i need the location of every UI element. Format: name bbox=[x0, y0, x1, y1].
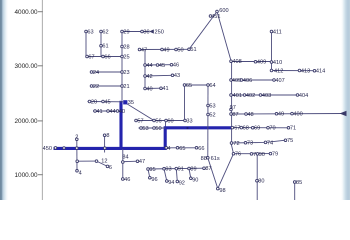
node 89 bbox=[188, 166, 197, 172]
svg-text:21: 21 bbox=[123, 84, 129, 90]
svg-text:47: 47 bbox=[141, 47, 147, 53]
node 97 bbox=[230, 105, 236, 111]
pipe 20-35 bbox=[88, 101, 124, 103]
svg-text:44: 44 bbox=[109, 109, 115, 115]
svg-text:64: 64 bbox=[209, 83, 215, 89]
node 63 bbox=[85, 29, 94, 35]
svg-text:62: 62 bbox=[102, 29, 108, 35]
pipe 44-46 bbox=[145, 64, 172, 66]
node 28 bbox=[121, 44, 130, 50]
node 414 bbox=[313, 69, 325, 75]
svg-text:414: 414 bbox=[316, 69, 325, 75]
svg-text:41: 41 bbox=[96, 109, 102, 115]
node 410 bbox=[270, 60, 282, 66]
svg-text:406: 406 bbox=[243, 78, 252, 84]
svg-text:411: 411 bbox=[273, 29, 282, 35]
svg-text:40: 40 bbox=[146, 86, 152, 92]
node 95 bbox=[147, 167, 156, 173]
pipe 2-4 bbox=[76, 139, 78, 171]
svg-text:93: 93 bbox=[165, 167, 171, 173]
arrow outfall right edge bbox=[340, 111, 347, 117]
wire selected-path branch 35-34 (thick blue) bbox=[119, 101, 122, 149]
node 23 bbox=[121, 70, 130, 76]
node 42 bbox=[144, 74, 153, 80]
svg-text:57: 57 bbox=[137, 118, 143, 124]
window border left strip bbox=[0, 0, 8, 200]
svg-text:47: 47 bbox=[139, 159, 145, 165]
svg-text:41: 41 bbox=[162, 86, 168, 92]
node 50b bbox=[175, 47, 184, 53]
svg-text:84: 84 bbox=[122, 155, 128, 161]
node 30 bbox=[141, 29, 150, 35]
pipe 89-90 bbox=[189, 169, 191, 179]
svg-text:450: 450 bbox=[43, 146, 52, 152]
svg-text:68: 68 bbox=[243, 126, 249, 132]
svg-text:88: 88 bbox=[201, 156, 207, 162]
node 53b bbox=[207, 103, 216, 109]
pipe 411-412 bbox=[271, 32, 273, 71]
svg-text:4: 4 bbox=[167, 146, 170, 152]
node 92 bbox=[176, 180, 185, 187]
svg-text:49: 49 bbox=[163, 47, 169, 53]
node 600 bbox=[216, 8, 229, 14]
pipe 91-92 bbox=[176, 169, 177, 182]
pipe 72-75 bbox=[231, 140, 286, 143]
svg-text:66: 66 bbox=[104, 54, 110, 60]
node 12 bbox=[95, 159, 107, 165]
node 76 bbox=[232, 152, 241, 158]
svg-text:94: 94 bbox=[168, 180, 174, 186]
svg-text:50: 50 bbox=[155, 126, 161, 132]
node 77 bbox=[250, 152, 256, 158]
pipe 42-43 bbox=[145, 74, 173, 77]
svg-text:95: 95 bbox=[149, 167, 155, 173]
node 451 bbox=[209, 14, 220, 20]
svg-text:8: 8 bbox=[106, 133, 109, 139]
pipe 8-down bbox=[104, 135, 106, 152]
svg-text:70: 70 bbox=[269, 126, 275, 132]
node 2 bbox=[75, 135, 78, 141]
pipe 72-76 bbox=[231, 143, 234, 154]
svg-text:46: 46 bbox=[124, 177, 130, 183]
node 67b bbox=[231, 126, 240, 132]
node 73 bbox=[244, 141, 253, 147]
node 66b bbox=[195, 146, 204, 152]
spine 408-97 bbox=[231, 61, 233, 143]
svg-text:51: 51 bbox=[190, 47, 196, 53]
pipe 41-40 bbox=[93, 110, 121, 112]
pipe 54-66 bbox=[165, 147, 196, 149]
pipe 58-corner bbox=[165, 121, 167, 127]
svg-text:80: 80 bbox=[258, 179, 264, 185]
svg-text:451: 451 bbox=[211, 14, 220, 20]
svg-text:53: 53 bbox=[142, 126, 148, 132]
svg-text:50: 50 bbox=[177, 47, 183, 53]
svg-text:400: 400 bbox=[293, 112, 302, 118]
svg-text:52: 52 bbox=[209, 112, 215, 118]
node 25 bbox=[121, 54, 130, 60]
window border right strip bbox=[341, 0, 350, 200]
svg-text:67: 67 bbox=[234, 126, 240, 132]
pipe 412-414 bbox=[272, 70, 315, 72]
node 41b bbox=[160, 86, 169, 92]
pipe 98-76 bbox=[218, 154, 234, 189]
node 44 bbox=[107, 109, 116, 115]
node 33 bbox=[184, 118, 193, 124]
svg-text:96: 96 bbox=[151, 177, 157, 183]
svg-text:42: 42 bbox=[146, 74, 152, 80]
svg-text:69: 69 bbox=[254, 126, 260, 132]
node 3 bbox=[76, 160, 79, 163]
svg-text:44: 44 bbox=[146, 63, 152, 69]
svg-text:405: 405 bbox=[232, 78, 241, 84]
svg-text:404: 404 bbox=[299, 93, 308, 99]
svg-text:20: 20 bbox=[91, 99, 97, 105]
svg-text:66: 66 bbox=[198, 146, 204, 152]
node 70 bbox=[267, 126, 276, 132]
pipe 95-96 bbox=[148, 169, 150, 178]
svg-text:402: 402 bbox=[246, 93, 255, 99]
node 406 bbox=[240, 78, 252, 84]
pipe 600-51 bbox=[189, 12, 217, 50]
pipe 47-51 bbox=[140, 48, 190, 50]
pipe 62-66 bbox=[100, 32, 102, 57]
node 65 bbox=[183, 83, 192, 89]
node 48 bbox=[245, 112, 254, 118]
node 409 bbox=[254, 60, 266, 66]
svg-text:75: 75 bbox=[287, 138, 293, 144]
svg-text:2: 2 bbox=[75, 135, 78, 141]
svg-text:49: 49 bbox=[278, 112, 284, 118]
node 53 bbox=[140, 126, 149, 132]
svg-text:46: 46 bbox=[173, 63, 179, 69]
pipe 15-47 bbox=[123, 160, 138, 163]
svg-text:48: 48 bbox=[247, 112, 253, 118]
pipe 3-12 bbox=[77, 160, 96, 162]
pipe 405-407 bbox=[231, 79, 274, 81]
svg-text:92: 92 bbox=[179, 181, 185, 187]
node 411 bbox=[270, 29, 282, 35]
node 93 bbox=[163, 167, 172, 173]
node 40 bbox=[116, 109, 125, 115]
svg-text:90: 90 bbox=[192, 178, 198, 184]
svg-text:30: 30 bbox=[143, 29, 149, 35]
node 24 bbox=[90, 70, 99, 76]
svg-text:98: 98 bbox=[219, 188, 225, 194]
svg-text:413: 413 bbox=[301, 68, 310, 74]
node 80 bbox=[256, 179, 265, 185]
pipe 87-outfall bbox=[231, 113, 343, 116]
svg-text:401: 401 bbox=[233, 93, 242, 99]
node 78 bbox=[256, 152, 265, 158]
svg-text:45: 45 bbox=[159, 63, 165, 69]
node 49b bbox=[275, 112, 284, 118]
svg-text:63: 63 bbox=[87, 29, 93, 35]
svg-text:61s: 61s bbox=[211, 156, 220, 162]
node 22 bbox=[90, 84, 99, 90]
node 47c bbox=[136, 159, 145, 165]
pipe 12-6 bbox=[97, 161, 108, 166]
axis vertical line bbox=[41, 0, 43, 200]
svg-text:7: 7 bbox=[253, 152, 256, 158]
node 407 bbox=[273, 78, 285, 84]
node 402 bbox=[243, 93, 255, 99]
pipe 57-33 bbox=[136, 120, 185, 122]
node 84n bbox=[122, 161, 125, 164]
node 405 bbox=[230, 78, 242, 84]
pipe 40-41b bbox=[145, 87, 161, 89]
svg-text:409: 409 bbox=[257, 60, 266, 66]
node 58 bbox=[165, 118, 174, 124]
pipe 93-94 bbox=[164, 169, 167, 181]
svg-text:403: 403 bbox=[262, 93, 271, 99]
tick 1000.00 bbox=[14, 172, 42, 179]
svg-text:72: 72 bbox=[233, 141, 239, 147]
node 1 bbox=[63, 147, 66, 150]
svg-text:28: 28 bbox=[123, 44, 129, 50]
svg-text:97: 97 bbox=[230, 105, 236, 111]
node 412 bbox=[270, 69, 283, 75]
pipe 85-bottom bbox=[294, 182, 296, 200]
node 88 bbox=[201, 156, 210, 162]
node 75 bbox=[284, 138, 293, 144]
pipe 34-46 bbox=[122, 149, 124, 179]
svg-text:45: 45 bbox=[104, 99, 110, 105]
svg-text:65: 65 bbox=[179, 146, 185, 152]
svg-text:74: 74 bbox=[267, 140, 273, 146]
svg-text:91: 91 bbox=[178, 167, 184, 173]
node 74 bbox=[264, 140, 273, 146]
pipe 600-408 bbox=[217, 12, 231, 61]
pipe 53-50 bbox=[139, 127, 166, 129]
node 43 bbox=[171, 73, 180, 79]
svg-text:40: 40 bbox=[119, 109, 125, 115]
node 71 bbox=[287, 126, 296, 132]
node 35 bbox=[123, 100, 134, 106]
pipe 24-23 bbox=[92, 71, 123, 73]
svg-text:60: 60 bbox=[167, 118, 173, 124]
pipe 95-87 bbox=[148, 167, 204, 170]
pipe 47-40 bbox=[144, 50, 146, 89]
node 401 bbox=[230, 93, 242, 99]
node 413 bbox=[298, 68, 310, 74]
node 49 bbox=[161, 47, 170, 53]
node 98 bbox=[217, 187, 226, 194]
node 50 bbox=[153, 126, 162, 132]
node j1 bbox=[76, 147, 79, 150]
node 6b bbox=[106, 165, 112, 171]
tick 3000.00 bbox=[14, 63, 42, 70]
node 8 bbox=[103, 133, 109, 139]
svg-text:407: 407 bbox=[275, 78, 284, 84]
node 62 bbox=[100, 29, 109, 35]
node 40b bbox=[144, 86, 153, 92]
tick 2000.00 bbox=[14, 118, 42, 125]
svg-text:4: 4 bbox=[79, 171, 82, 177]
node 45b bbox=[156, 63, 165, 69]
pipe 78-bottom bbox=[256, 154, 258, 200]
node 87b bbox=[230, 112, 239, 118]
node 91 bbox=[175, 167, 184, 173]
node 4 bbox=[76, 170, 82, 177]
node 45 bbox=[102, 99, 111, 105]
svg-text:73: 73 bbox=[247, 141, 253, 147]
pipe 29-250 bbox=[122, 31, 149, 33]
pipe 76-79 bbox=[234, 153, 271, 155]
svg-text:250: 250 bbox=[155, 30, 164, 36]
node 61 bbox=[100, 44, 109, 50]
svg-text:61: 61 bbox=[102, 44, 108, 50]
node 21 bbox=[121, 84, 130, 90]
svg-text:12: 12 bbox=[101, 159, 107, 165]
svg-text:23: 23 bbox=[123, 70, 129, 76]
node 47 bbox=[138, 47, 147, 53]
node 67 bbox=[86, 54, 95, 60]
node 90 bbox=[190, 177, 199, 184]
svg-text:25: 25 bbox=[123, 54, 129, 60]
svg-text:76: 76 bbox=[235, 152, 241, 158]
svg-text:24: 24 bbox=[93, 70, 99, 76]
node 400 bbox=[291, 112, 303, 118]
svg-text:89: 89 bbox=[190, 166, 196, 172]
pipe 401-404 bbox=[231, 94, 298, 96]
pipe 408-410 bbox=[231, 61, 272, 63]
node 69 bbox=[251, 126, 260, 132]
pipe 65-33 bbox=[184, 85, 186, 121]
node 94 bbox=[166, 180, 175, 187]
node 96 bbox=[149, 176, 158, 183]
svg-text:408: 408 bbox=[232, 59, 241, 65]
node 29 bbox=[121, 29, 130, 35]
node 46b bbox=[170, 63, 179, 69]
svg-text:35: 35 bbox=[128, 100, 134, 106]
pipe 88-98 bbox=[208, 158, 218, 189]
svg-text:410: 410 bbox=[273, 60, 282, 66]
svg-text:65: 65 bbox=[186, 83, 192, 89]
svg-text:90: 90 bbox=[259, 152, 265, 158]
svg-text:43: 43 bbox=[174, 73, 180, 79]
node 87 bbox=[203, 166, 212, 172]
node 41 bbox=[94, 109, 103, 115]
node 72 bbox=[230, 141, 239, 147]
wire selected-path main (thick blue) bbox=[54, 128, 233, 149]
pipe 63-67 bbox=[85, 32, 87, 57]
svg-text:67: 67 bbox=[88, 54, 94, 60]
node 68 bbox=[240, 126, 249, 132]
node 404 bbox=[296, 93, 308, 99]
svg-text:22: 22 bbox=[93, 84, 99, 90]
node 52 bbox=[207, 112, 216, 118]
node 51 bbox=[188, 47, 197, 53]
svg-text:6: 6 bbox=[109, 165, 112, 171]
node on selected path bbox=[186, 127, 188, 129]
node 66 bbox=[102, 54, 111, 60]
pipe 64-88 bbox=[207, 85, 209, 158]
node j2 bbox=[104, 147, 107, 150]
svg-text:29: 29 bbox=[123, 29, 129, 35]
node 403 bbox=[259, 93, 271, 99]
svg-text:600: 600 bbox=[219, 8, 228, 14]
svg-text:87: 87 bbox=[232, 112, 238, 118]
pipe 35-56 bbox=[125, 102, 155, 120]
svg-text:85: 85 bbox=[296, 180, 302, 186]
node 61s bbox=[211, 156, 220, 162]
svg-text:412: 412 bbox=[274, 69, 283, 75]
svg-text:71: 71 bbox=[290, 126, 296, 132]
node 408 bbox=[230, 59, 242, 65]
node 20 bbox=[88, 99, 97, 105]
arrow reservoir 250 bbox=[149, 29, 154, 33]
node 450 bbox=[43, 146, 57, 152]
node 65b bbox=[176, 146, 185, 152]
svg-text:79: 79 bbox=[272, 152, 278, 158]
svg-text:56: 56 bbox=[155, 118, 161, 124]
node 57 bbox=[135, 118, 144, 124]
node 85b bbox=[293, 180, 302, 186]
svg-text:87: 87 bbox=[205, 166, 211, 172]
pipe 67-71 bbox=[232, 127, 289, 129]
pipe 29-21 bbox=[121, 32, 123, 101]
node 54 bbox=[165, 146, 171, 152]
node 64 bbox=[207, 83, 216, 89]
svg-text:53: 53 bbox=[209, 103, 215, 109]
pipe 67-25 bbox=[86, 56, 122, 58]
node 79 bbox=[269, 152, 278, 158]
tick 4000.00 bbox=[14, 9, 42, 16]
pipe 22-21 bbox=[92, 85, 123, 87]
node 46 bbox=[122, 177, 131, 183]
pipe 65-64 bbox=[185, 84, 209, 86]
svg-text:33: 33 bbox=[186, 118, 192, 124]
node 56 bbox=[153, 118, 162, 124]
node 44b bbox=[144, 63, 153, 69]
